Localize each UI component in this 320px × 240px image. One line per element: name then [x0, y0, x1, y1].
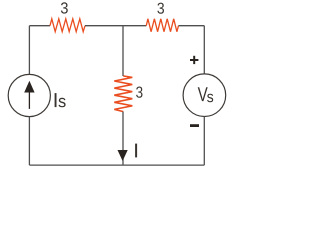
- wire: top-middle horizontal segment: [85, 25, 146, 27]
- wire: bottom horizontal segment: [29, 164, 204, 166]
- resistor R1 value 3 (top-left): [50, 19, 85, 32]
- minus sign (-): [190, 124, 199, 127]
- value label 3 (R3): [136, 87, 142, 98]
- voltage source Vs circle: [183, 74, 226, 117]
- wire: middle vertical upper segment (junction at top wire): [122, 26, 124, 76]
- wire: top-right horizontal segment: [179, 25, 205, 27]
- wire: right vertical upper segment: [203, 26, 205, 74]
- wire: right vertical lower segment: [203, 116, 205, 165]
- current source arrow (pointing up): [24, 81, 34, 109]
- label Vs: [198, 87, 214, 102]
- label Is: [55, 93, 66, 107]
- value label 3 (R2): [157, 3, 164, 14]
- current source Is circle: [8, 74, 50, 116]
- plus sign (+): [190, 56, 198, 64]
- wire: middle vertical lower segment: [122, 112, 124, 166]
- wire: left vertical lower segment: [28, 117, 30, 166]
- wire: left vertical upper segment: [28, 26, 30, 75]
- value label 3 (R1): [61, 2, 68, 13]
- label I (branch current): [135, 144, 137, 158]
- resistor R2 value 3 (top-right): [146, 19, 178, 32]
- wire: top-left horizontal segment: [29, 25, 50, 27]
- branch current arrow I (pointing down): [118, 150, 128, 161]
- resistor R3 value 3 (middle vertical): [114, 76, 132, 112]
